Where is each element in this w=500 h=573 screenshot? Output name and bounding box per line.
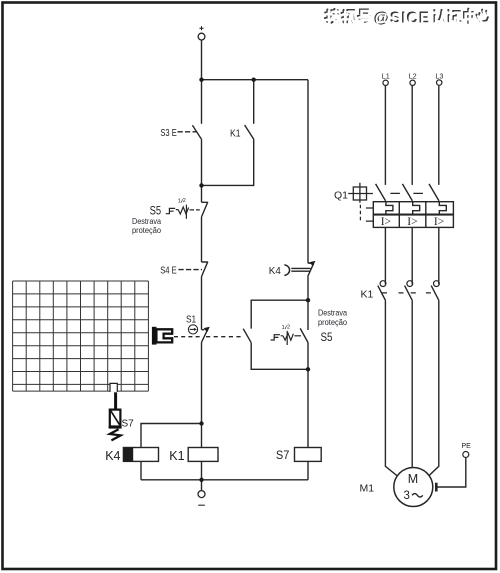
spring zigzag S7 — [110, 429, 121, 440]
wire S3 branch top — [201, 80, 203, 124]
linkage dashes K1 poles — [382, 292, 431, 294]
wire S5 right to bottom node — [307, 343, 309, 370]
svg-text:3: 3 — [404, 490, 410, 502]
terminal circle PE — [463, 452, 469, 458]
svg-text:S1: S1 — [186, 315, 197, 326]
node bottom bus — [199, 478, 203, 482]
terminal circle + — [198, 33, 205, 40]
actuator key bracket on guard — [156, 329, 172, 342]
contact S4 E (NC emergency stop) — [202, 262, 208, 277]
release hook pole 2 — [413, 202, 420, 215]
svg-text:1: 1 — [178, 199, 181, 205]
wire K1 pole2 to motor — [411, 301, 413, 470]
node K4 coil branch — [199, 421, 203, 425]
bolt body S7 — [110, 410, 121, 427]
breaker Q1 pole 1 blade — [376, 184, 386, 201]
arrow S1 contact — [204, 327, 210, 333]
svg-text:Destrava: Destrava — [132, 217, 161, 226]
linkage double line K4 — [291, 268, 310, 271]
svg-text:proteção: proteção — [318, 318, 348, 327]
wire PE to motor — [437, 458, 466, 488]
mechanical link dashed S1 row — [174, 336, 201, 338]
wire S7 coil to bottom bus — [307, 461, 309, 479]
wire K1 pole3 to motor — [427, 301, 439, 478]
thermal release box row Q1 — [373, 202, 453, 215]
wire bottom bus — [141, 479, 308, 481]
wire K4 coil branch — [141, 424, 202, 448]
contact bypass (S1 linked NO) — [243, 329, 251, 343]
terminal circle L3 — [437, 80, 442, 85]
svg-text:S7: S7 — [122, 419, 135, 430]
contact S1 (guard position switch NC) — [202, 329, 208, 342]
wire + terminal to top bus — [201, 40, 203, 80]
wire S5 to S4 — [201, 217, 203, 262]
wire pole1 box to K1 — [384, 227, 386, 284]
node top bus K1 branch — [252, 78, 256, 82]
wire bypass loop bottom — [251, 343, 308, 370]
relay coil K4 — [123, 448, 158, 462]
dashed actuator S3 E — [178, 131, 197, 133]
contact K1 aux branch wire top — [253, 80, 255, 124]
svg-text:Destrava: Destrava — [318, 309, 347, 318]
terminal bar PE at motor — [435, 483, 438, 492]
svg-text:K1: K1 — [361, 289, 374, 301]
svg-text:2: 2 — [183, 198, 186, 204]
svg-text:K1: K1 — [169, 449, 184, 463]
svg-text:PE: PE — [462, 443, 472, 450]
wire L3 down — [438, 86, 440, 185]
wire K1 aux bottom — [202, 140, 254, 186]
svg-text:L2: L2 — [409, 72, 417, 81]
wire K4 to node — [307, 277, 309, 301]
notch in guard for bolt — [110, 383, 117, 392]
switch S3 (NO start button) — [192, 125, 201, 140]
wire S4 to S1 — [201, 277, 203, 330]
wire top bus — [202, 79, 309, 81]
terminal circle minus — [198, 491, 205, 498]
linkage dashes Q1 poles — [390, 192, 423, 194]
svg-text:proteção: proteção — [132, 226, 162, 235]
solenoid coil S7 — [295, 448, 322, 462]
node bypass bottom — [306, 367, 310, 371]
dashed trip link Q1 to releases — [359, 205, 361, 221]
contact S5 right (NO trip contact) — [300, 328, 308, 342]
guard grid fence — [13, 281, 149, 391]
wire pole2 box to K1 — [411, 227, 413, 284]
operator Q1 square with cross — [353, 187, 366, 200]
release hook pole 3 — [439, 202, 446, 215]
contactor K1 pole 2 — [407, 281, 413, 287]
node top bus left — [199, 78, 203, 82]
terminal circle L2 — [410, 80, 415, 85]
terminal circle L1 — [383, 80, 388, 85]
tilde inside motor — [412, 494, 423, 498]
wire L1 down — [384, 86, 386, 185]
wire K4 coil to bottom bus — [140, 461, 142, 479]
svg-text:M: M — [408, 472, 418, 486]
wire right branch down to coil S7 — [307, 369, 309, 447]
svg-text:2: 2 — [287, 325, 290, 331]
coil K4 black segment — [123, 448, 133, 462]
svg-text:I>: I> — [407, 216, 417, 228]
svg-text:L1: L1 — [382, 72, 390, 81]
minus sign — [198, 504, 205, 506]
dashed actuator S4 E — [178, 269, 202, 271]
actuator semicircle K4 — [284, 265, 289, 276]
svg-text:K4: K4 — [105, 449, 120, 463]
wire S3 to join — [201, 140, 203, 203]
node K1 aux join — [199, 183, 203, 187]
wire pole3 box to K1 — [438, 227, 440, 284]
trip device S5 right (F-release + spring) — [271, 331, 301, 345]
plus terminal + — [199, 26, 203, 30]
wire K1 pole1 to motor — [385, 301, 400, 479]
contactor K1 pole 3 — [434, 281, 440, 287]
contact K4 (NC release contact) — [308, 263, 314, 276]
svg-text:L3: L3 — [435, 72, 443, 81]
wire bypass loop top — [251, 300, 308, 328]
svg-text:K1: K1 — [230, 129, 241, 140]
svg-text:S3 E: S3 E — [160, 128, 177, 139]
magnetic release box row Q1 (I>) — [373, 215, 453, 228]
wire K1 coil to bottom bus — [201, 461, 203, 479]
contact K1 aux (holding) — [245, 125, 254, 140]
breaker Q1 pole 3 blade — [429, 184, 439, 201]
svg-text:S5: S5 — [321, 332, 333, 344]
arrow S1 sensor — [194, 328, 197, 331]
wire S1 down to coil node — [201, 342, 203, 447]
release hook pole 1 — [386, 202, 393, 215]
sensor circle S1 — [188, 325, 197, 334]
breaker Q1 pole 2 blade — [402, 184, 412, 201]
arrow K4 contact — [309, 261, 315, 267]
svg-text:S4 E: S4 E — [160, 266, 177, 277]
wire L2 down — [411, 86, 413, 185]
svg-text:M1: M1 — [360, 483, 375, 495]
svg-text:1: 1 — [282, 325, 285, 331]
svg-text:I>: I> — [381, 216, 391, 228]
relay coil K1 — [188, 448, 218, 462]
contact S5 top (NC trip contact) — [202, 202, 208, 217]
bolt stem S7 — [114, 392, 117, 409]
node bypass top — [306, 298, 310, 302]
wire main S5 branch — [307, 300, 309, 330]
svg-text:Q1: Q1 — [334, 190, 348, 202]
wire to minus terminal — [201, 480, 203, 491]
motor M1 circle — [394, 468, 433, 507]
svg-text:S7: S7 — [276, 448, 290, 462]
trip device S5 (F-release + spring) — [166, 205, 200, 219]
svg-text:S5: S5 — [150, 206, 162, 218]
svg-text:I>: I> — [434, 216, 444, 228]
contactor K1 pole 1 — [380, 281, 386, 287]
label I> pole 1 — [381, 216, 445, 228]
svg-text:K4: K4 — [269, 265, 281, 277]
wire right branch down to K4 contact — [307, 80, 309, 264]
